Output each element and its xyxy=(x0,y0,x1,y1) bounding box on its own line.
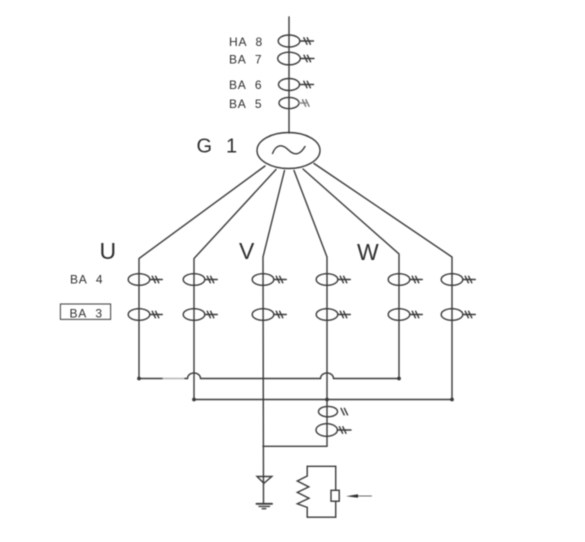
svg-text:V: V xyxy=(239,238,255,264)
wire: upper bus (leads 1-5) with hops xyxy=(139,373,399,379)
svg-text:BA 4: BA 4 xyxy=(70,273,103,287)
current transformer neutral CT upper xyxy=(319,406,348,416)
svg-text:G: G xyxy=(197,136,213,158)
current transformer neutral CT lower xyxy=(316,424,351,437)
surge arrester (triangle) xyxy=(257,477,272,484)
current transformer BA7 xyxy=(278,52,314,65)
current transformer BA3 col5 xyxy=(388,309,422,321)
current transformer BA3 col3 xyxy=(252,309,286,321)
svg-text:BA 7: BA 7 xyxy=(229,53,262,67)
current transformer BA3 col4 xyxy=(316,309,350,321)
generator G1 symbol xyxy=(257,133,320,169)
junction dot lead2/lower bus xyxy=(192,398,196,402)
resistor (field rheostat) xyxy=(331,490,339,501)
wire: top feeder vertical xyxy=(288,17,290,133)
current transformer BA4 col5 xyxy=(388,274,422,286)
wire: stator lead 5 xyxy=(303,169,399,379)
current transformer BA3 col2 xyxy=(183,309,217,321)
svg-text:U: U xyxy=(100,238,117,264)
current transformer BA3 col6 xyxy=(441,309,475,321)
current transformer BA5 xyxy=(279,97,309,108)
svg-text:W: W xyxy=(357,239,379,265)
current transformer BA3 col1 xyxy=(128,309,162,321)
wire: stator lead 6 xyxy=(314,164,452,400)
wire: lower bus (leads 2-6) xyxy=(194,399,452,401)
wire: stator lead 3 (continues to neutral/arrester) xyxy=(263,171,285,505)
svg-text:1: 1 xyxy=(226,136,237,158)
current transformer BA4 col4 xyxy=(316,274,350,286)
excitation winding loop xyxy=(297,466,335,517)
wire: neutral jog xyxy=(263,445,327,447)
label box BA 3 xyxy=(60,304,110,319)
arrow (adjustment indicator) xyxy=(346,494,372,498)
current transformer BA6 xyxy=(279,79,314,91)
svg-text:BA 6: BA 6 xyxy=(229,78,262,92)
junction dot lead1/upper bus xyxy=(137,377,141,381)
current transformer BA4 col6 xyxy=(441,274,475,286)
ground xyxy=(257,504,273,509)
current transformer BA8 (HA 8) xyxy=(278,35,313,47)
wire: stator lead 1 (fan + vertical) xyxy=(139,166,265,379)
junction dot lead4/lower bus xyxy=(325,398,329,402)
wire: stator lead 2 xyxy=(194,170,276,400)
svg-text:BA 3: BA 3 xyxy=(70,306,103,320)
junction dot lead5/upper bus xyxy=(397,377,401,381)
current transformer BA4 col3 xyxy=(252,274,286,286)
current transformer BA4 col2 xyxy=(183,274,217,286)
junction dot lead6/lower bus xyxy=(450,398,454,402)
svg-text:BA 5: BA 5 xyxy=(229,97,262,111)
wire: stator lead 4 (continues through neutral CTs) xyxy=(294,171,327,447)
current transformer BA4 col1 xyxy=(128,274,162,286)
svg-text:HA 8: HA 8 xyxy=(229,35,263,49)
